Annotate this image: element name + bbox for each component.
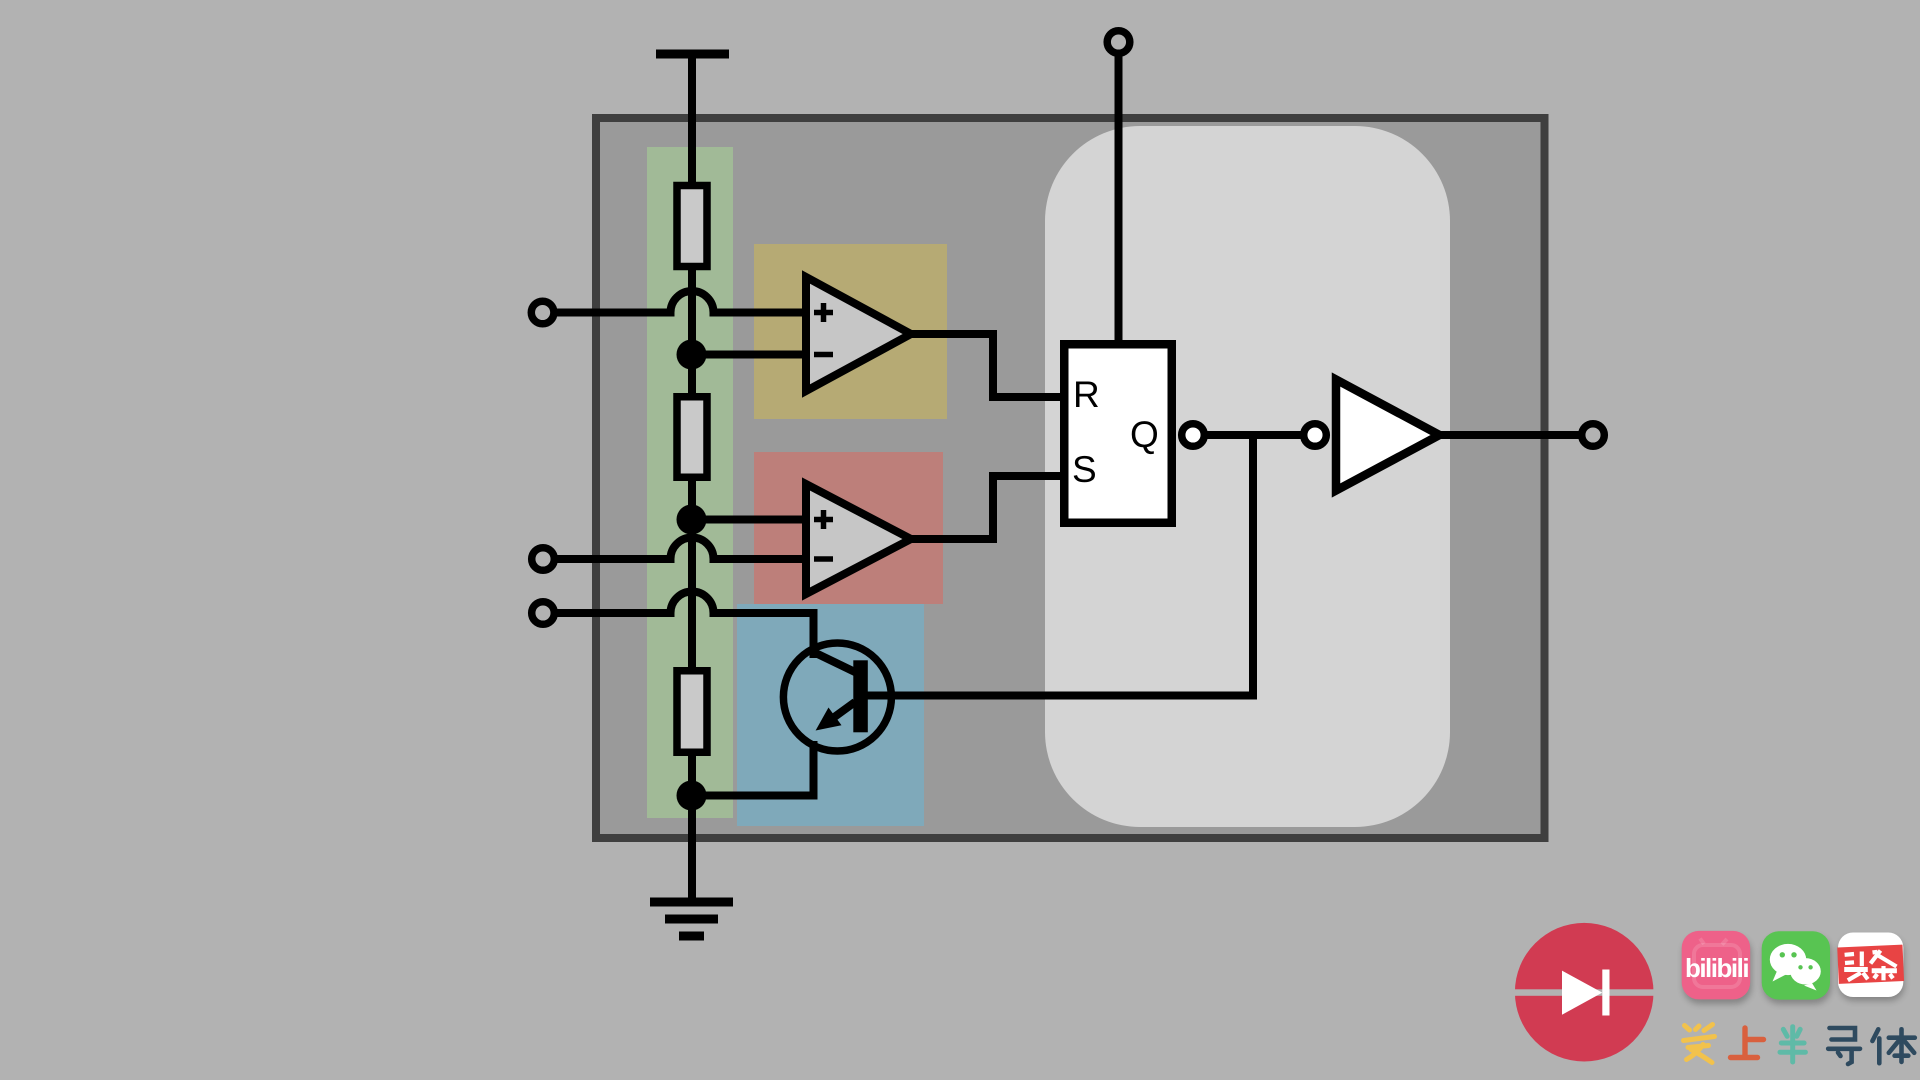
output buffer U5 bbox=[1336, 380, 1440, 491]
highlight voltage divider (green) bbox=[647, 147, 733, 818]
caption char 爱 bbox=[1684, 1025, 1715, 1063]
wire Q to transistor base bbox=[866, 435, 1253, 696]
svg-text:S: S bbox=[1072, 449, 1097, 490]
svg-text:Q: Q bbox=[1130, 414, 1159, 455]
highlight comparator 2 (red) bbox=[754, 452, 943, 604]
ground bbox=[650, 902, 733, 936]
resistor R3 bbox=[677, 671, 707, 753]
wire U3 output to flip-flop S input bbox=[911, 476, 1066, 539]
node C (emitter junction) bbox=[677, 781, 707, 811]
wire Q to buffer input bbox=[1208, 431, 1301, 439]
wire U2 output to flip-flop R input bbox=[911, 334, 1066, 397]
wire R3 to ground bbox=[688, 750, 696, 902]
internal logic background (rounded light panel) bbox=[1045, 126, 1450, 827]
logo diode play button bbox=[1513, 923, 1656, 1062]
caption char 上 bbox=[1731, 1028, 1764, 1058]
op-amp U3 (trigger comparator) bbox=[806, 484, 911, 594]
pin TRIG (trigger terminal) bbox=[532, 548, 555, 571]
wire pin VCC to flip-flop bbox=[1115, 56, 1123, 344]
wire buffer to output pin bbox=[1441, 431, 1582, 439]
svg-text:bilibili: bilibili bbox=[1685, 953, 1748, 983]
SR flip-flop U4 bbox=[1064, 344, 1172, 523]
caption char 导 bbox=[1828, 1028, 1860, 1064]
wire R2 to R3 bbox=[688, 476, 696, 672]
wire node A to comparator 1 inverting input bbox=[692, 351, 807, 359]
transistor Q1 (discharge) bbox=[783, 643, 891, 751]
resistor R1 bbox=[677, 186, 707, 267]
wire node B to comparator 2 non-inverting input bbox=[692, 516, 807, 524]
wire pin DIS to transistor collector (hop over divider) bbox=[556, 592, 814, 659]
node buffer input ring bbox=[1304, 424, 1327, 447]
caption char 体 bbox=[1872, 1029, 1914, 1063]
wire node C to transistor emitter bbox=[692, 741, 814, 796]
logo wechat bbox=[1762, 931, 1832, 1004]
highlight comparator 1 (khaki) bbox=[754, 244, 947, 419]
wire VCC to R1 bbox=[688, 54, 696, 190]
wire pin THR to comparator 1 non-inverting input (hop over divider) bbox=[556, 291, 806, 313]
pin VCC (top terminal) bbox=[1107, 31, 1130, 54]
op-amp U2 (threshold comparator) bbox=[806, 277, 911, 391]
node B (trigger divider junction) bbox=[677, 505, 707, 535]
svg-text:R: R bbox=[1073, 374, 1100, 415]
resistor R2 bbox=[677, 397, 707, 478]
node Q output ring bbox=[1182, 424, 1205, 447]
wire pin TRIG to comparator 2 inverting input (hop over divider) bbox=[556, 538, 806, 560]
logo bilibili bbox=[1682, 931, 1752, 1004]
node A (threshold divider junction) bbox=[677, 340, 707, 370]
logo toutiao bbox=[1837, 933, 1904, 1002]
IC body U1 (555 outline) bbox=[596, 118, 1545, 838]
wire R1 to R2 bbox=[688, 264, 696, 398]
pin THR (threshold terminal) bbox=[531, 301, 554, 324]
highlight discharge transistor (blue) bbox=[737, 604, 924, 826]
pin DIS (discharge terminal) bbox=[532, 602, 555, 625]
pin OUT (output terminal) bbox=[1582, 424, 1605, 447]
caption char 半 bbox=[1780, 1027, 1805, 1062]
VCC rail symbol bbox=[656, 50, 729, 59]
